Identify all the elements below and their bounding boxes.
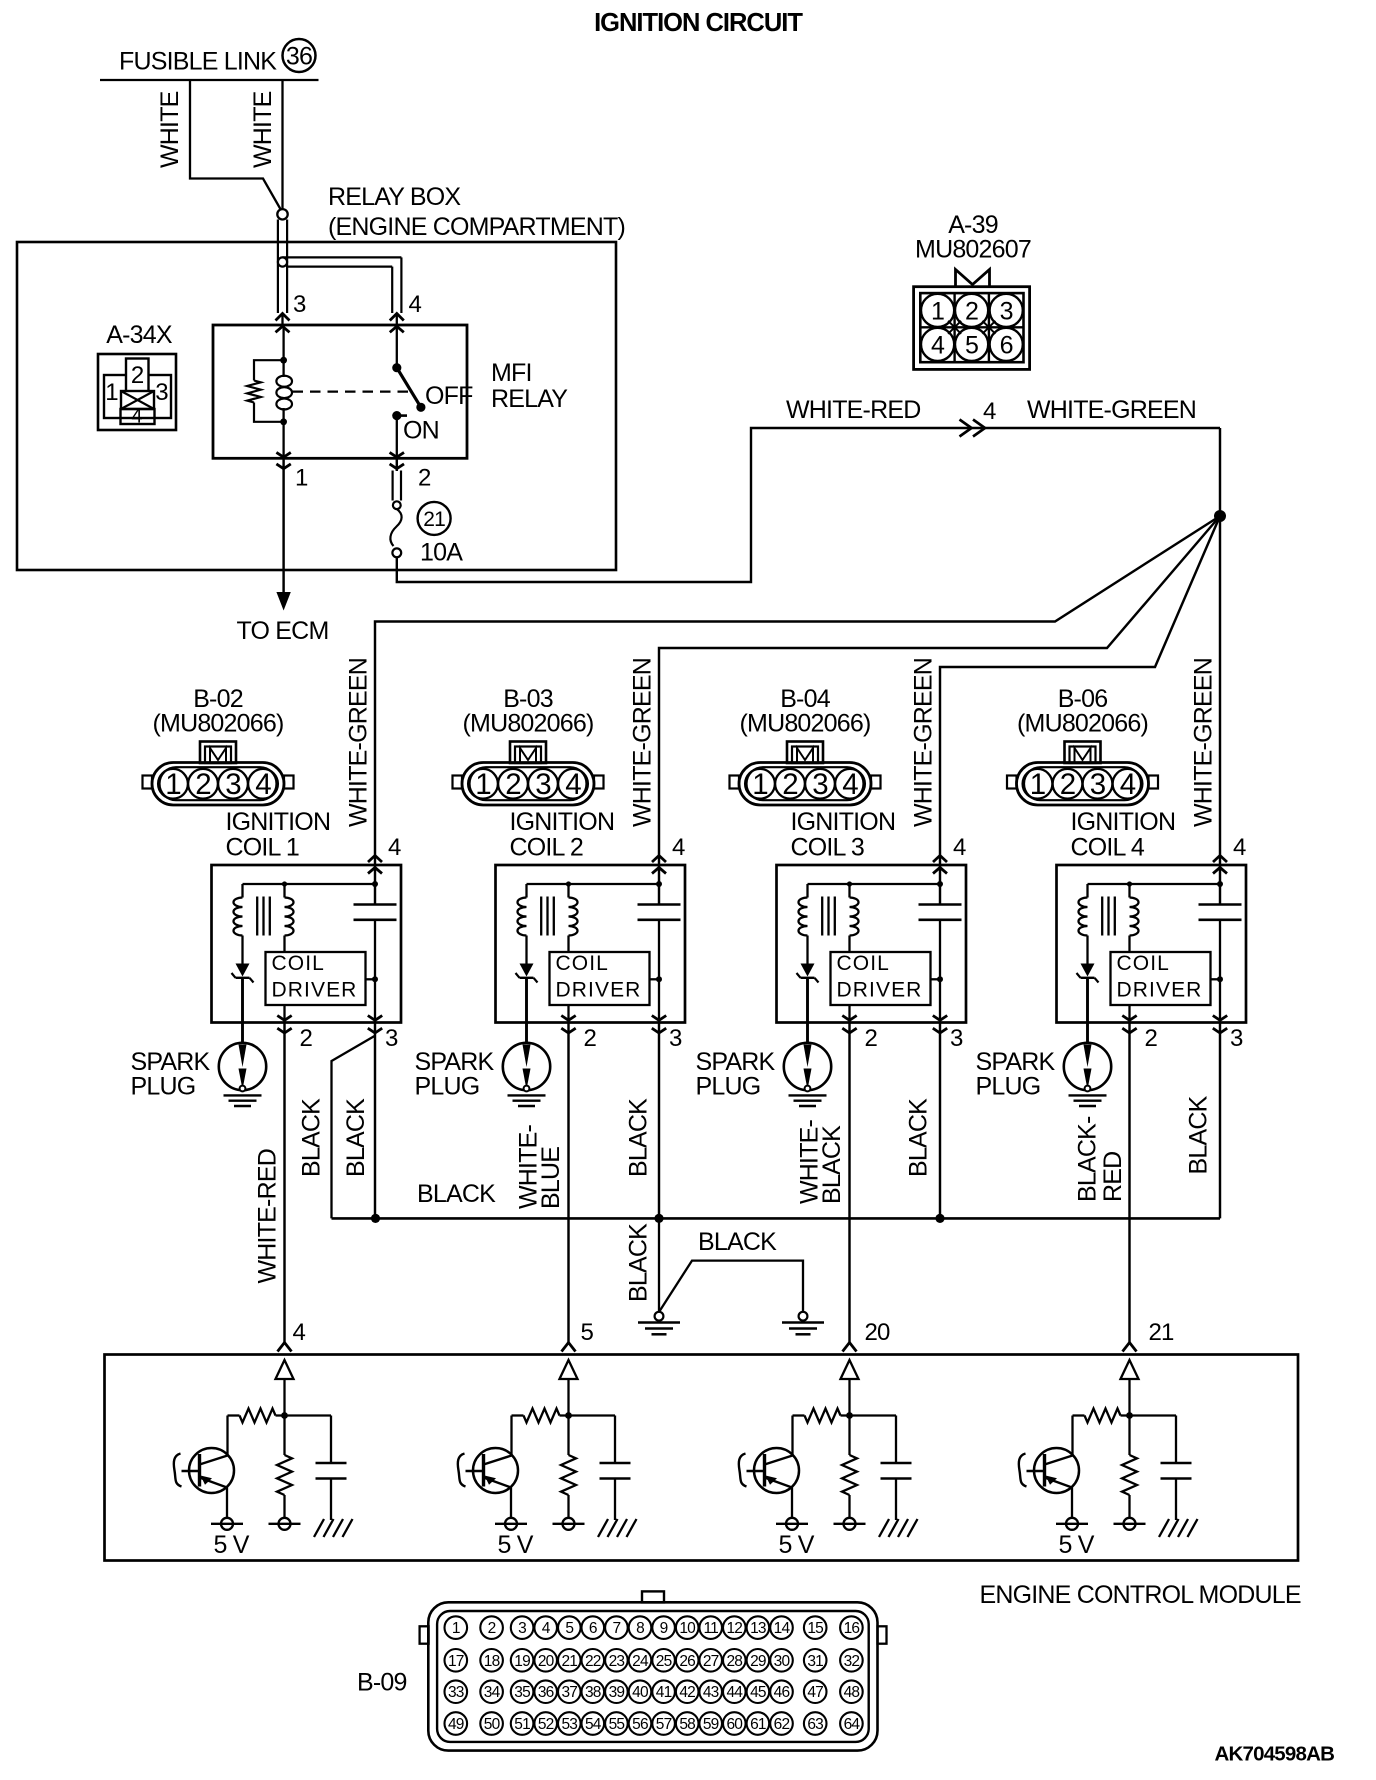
double wire branch to relay pin 4 bbox=[283, 257, 402, 326]
svg-text:37: 37 bbox=[561, 1684, 577, 1701]
svg-text:IGNITION: IGNITION bbox=[226, 808, 331, 836]
svg-text:29: 29 bbox=[750, 1653, 766, 1670]
ground symbol 1 bbox=[638, 1312, 680, 1335]
svg-text:2: 2 bbox=[584, 1025, 597, 1052]
svg-text:60: 60 bbox=[726, 1716, 743, 1733]
svg-text:21: 21 bbox=[423, 508, 445, 531]
coil 1 zener diode bbox=[232, 964, 254, 983]
coil driver box coil 1 bbox=[266, 952, 366, 1005]
dashed actuation line bbox=[293, 391, 410, 393]
svg-text:BLUE: BLUE bbox=[537, 1147, 565, 1209]
inline connector 4 chevrons bbox=[960, 420, 986, 437]
splice connector circle bbox=[277, 209, 287, 219]
svg-text:38: 38 bbox=[585, 1684, 601, 1701]
coil 1 pin 3 diagonal branch (BLACK) bbox=[332, 1036, 375, 1218]
svg-text:63: 63 bbox=[807, 1716, 823, 1733]
fuse 21 10A double lead bbox=[393, 458, 401, 501]
relay coil branch bbox=[276, 326, 292, 458]
svg-text:19: 19 bbox=[514, 1653, 530, 1670]
svg-text:4: 4 bbox=[931, 332, 945, 360]
svg-text:WHITE-RED: WHITE-RED bbox=[786, 396, 920, 424]
svg-text:BLACK: BLACK bbox=[625, 1098, 653, 1177]
ECM driver circuit for pin 21 bbox=[1019, 1360, 1198, 1559]
svg-text:22: 22 bbox=[585, 1653, 601, 1670]
svg-text:COIL: COIL bbox=[837, 952, 890, 975]
coil 1 pin 2 lead bbox=[283, 1005, 285, 1023]
svg-text:44: 44 bbox=[726, 1684, 743, 1701]
svg-text:1: 1 bbox=[295, 465, 308, 492]
ECM driver circuit for pin 4 bbox=[174, 1360, 353, 1559]
svg-text:BLACK: BLACK bbox=[625, 1223, 653, 1302]
ignition coil 2 box bbox=[496, 865, 686, 1023]
svg-text:54: 54 bbox=[585, 1716, 602, 1733]
coil 2 pin 3 exit chevrons bbox=[652, 1016, 666, 1034]
coil 4 HT lead bbox=[1086, 978, 1089, 1044]
svg-text:3: 3 bbox=[950, 1025, 963, 1052]
svg-text:WHITE-GREEN: WHITE-GREEN bbox=[1027, 396, 1196, 424]
coil 3 pin 2 exit chevrons bbox=[842, 1016, 856, 1034]
MFI relay box bbox=[213, 325, 467, 458]
svg-text:61: 61 bbox=[750, 1716, 766, 1733]
svg-text:2: 2 bbox=[865, 1025, 878, 1052]
coil 4 driver to cap link bbox=[1211, 976, 1224, 982]
svg-text:26: 26 bbox=[679, 1653, 695, 1670]
svg-text:4: 4 bbox=[255, 768, 271, 801]
circled 21 bbox=[418, 502, 451, 535]
ECM connector B-09 bbox=[420, 1591, 887, 1750]
svg-text:AK704598AB: AK704598AB bbox=[1215, 1743, 1335, 1766]
spark plug coil 3 bbox=[784, 1043, 831, 1106]
svg-text:5: 5 bbox=[965, 332, 978, 360]
svg-text:62: 62 bbox=[774, 1716, 790, 1733]
svg-text:DRIVER: DRIVER bbox=[1117, 979, 1203, 1002]
WHITE-BLUE wire label bbox=[515, 1124, 566, 1209]
svg-text:21: 21 bbox=[1149, 1319, 1175, 1346]
svg-text:46: 46 bbox=[774, 1684, 790, 1701]
wire fuse to WHITE-RED line bbox=[397, 428, 1220, 582]
relay box outline bbox=[17, 242, 616, 570]
coil 4 transformer bbox=[1079, 884, 1139, 964]
connector B-02 (MU802066) for ignition coil 1 bbox=[143, 685, 294, 805]
svg-text:(MU802066): (MU802066) bbox=[1017, 710, 1148, 738]
svg-text:27: 27 bbox=[703, 1653, 719, 1670]
coil 4 capacitor bbox=[1199, 905, 1242, 1023]
svg-text:RELAY BOX: RELAY BOX bbox=[328, 183, 461, 211]
circled 36 bbox=[283, 39, 316, 72]
svg-text:5: 5 bbox=[581, 1319, 594, 1346]
svg-text:RED: RED bbox=[1099, 1152, 1127, 1202]
svg-text:53: 53 bbox=[561, 1716, 577, 1733]
svg-text:59: 59 bbox=[703, 1716, 719, 1733]
svg-text:35: 35 bbox=[514, 1684, 530, 1701]
svg-text:3: 3 bbox=[535, 768, 551, 801]
coil 1 capacitor bbox=[354, 905, 397, 1023]
svg-text:COIL: COIL bbox=[272, 952, 325, 975]
svg-text:40: 40 bbox=[632, 1684, 649, 1701]
svg-text:9: 9 bbox=[660, 1620, 668, 1637]
svg-text:B-09: B-09 bbox=[357, 1669, 407, 1697]
svg-text:BLACK: BLACK bbox=[698, 1228, 777, 1256]
coil 4 pin 3 exit chevrons bbox=[1213, 1016, 1227, 1034]
svg-text:BLACK: BLACK bbox=[1185, 1095, 1213, 1174]
svg-text:WHITE: WHITE bbox=[249, 91, 277, 168]
svg-text:DRIVER: DRIVER bbox=[556, 979, 642, 1002]
svg-text:1: 1 bbox=[752, 768, 768, 801]
svg-text:12: 12 bbox=[726, 1620, 742, 1637]
svg-text:1: 1 bbox=[931, 298, 944, 326]
ignition coil 3 box bbox=[777, 865, 967, 1023]
coil driver box coil 4 bbox=[1111, 952, 1211, 1005]
svg-text:3: 3 bbox=[669, 1025, 682, 1052]
svg-text:2: 2 bbox=[1145, 1025, 1158, 1052]
coil 2 pin 4 entry chevrons bbox=[652, 856, 666, 874]
svg-text:4: 4 bbox=[1233, 834, 1246, 861]
coil 1 transformer bbox=[234, 884, 294, 964]
svg-text:24: 24 bbox=[632, 1653, 649, 1670]
pin 3 entry chevrons bbox=[276, 314, 290, 333]
svg-text:36: 36 bbox=[538, 1684, 554, 1701]
svg-text:IGNITION: IGNITION bbox=[791, 808, 896, 836]
coil 3 zener diode bbox=[797, 964, 819, 983]
svg-text:5 V: 5 V bbox=[1059, 1531, 1095, 1559]
ECM pin 5 entry chevron bbox=[562, 1343, 576, 1352]
double wire from splice to relay pin 3 bbox=[278, 220, 287, 327]
svg-text:PLUG: PLUG bbox=[976, 1073, 1041, 1101]
svg-text:BLACK: BLACK bbox=[342, 1098, 370, 1177]
svg-text:4: 4 bbox=[672, 834, 685, 861]
svg-text:4: 4 bbox=[542, 1620, 551, 1637]
ECM pin 21 entry chevron bbox=[1123, 1343, 1137, 1352]
fusible link bus line bbox=[100, 79, 319, 81]
svg-text:56: 56 bbox=[632, 1716, 648, 1733]
svg-text:28: 28 bbox=[726, 1653, 742, 1670]
svg-text:WHITE: WHITE bbox=[156, 91, 184, 168]
ECM driver circuit for pin 5 bbox=[458, 1360, 637, 1559]
svg-text:3: 3 bbox=[812, 768, 828, 801]
svg-text:COIL 2: COIL 2 bbox=[510, 834, 583, 862]
svg-text:COIL: COIL bbox=[1117, 952, 1170, 975]
coil 4 pin 2 exit chevrons bbox=[1122, 1016, 1136, 1034]
svg-text:IGNITION: IGNITION bbox=[1071, 808, 1176, 836]
ECM driver circuit for pin 20 bbox=[739, 1360, 918, 1559]
svg-text:41: 41 bbox=[656, 1684, 672, 1701]
coil 3 pin 2 lead bbox=[848, 1005, 850, 1023]
spark plug coil 4 bbox=[1064, 1043, 1111, 1106]
svg-text:31: 31 bbox=[807, 1653, 823, 1670]
coil 4 zener diode bbox=[1077, 964, 1099, 983]
connector B-06 (MU802066) for ignition coil 4 bbox=[1007, 685, 1158, 805]
coil 3 pin 2 wire (WHITE-BLACK) to ECM pin 20 bbox=[848, 1023, 850, 1343]
coil 1 driver to cap link bbox=[366, 976, 379, 982]
coil 3 driver to cap link bbox=[931, 976, 944, 982]
svg-text:58: 58 bbox=[679, 1716, 695, 1733]
svg-text:RELAY: RELAY bbox=[491, 385, 568, 413]
svg-text:49: 49 bbox=[448, 1716, 464, 1733]
coil 2 internal top wire bbox=[527, 856, 663, 905]
svg-text:21: 21 bbox=[561, 1653, 577, 1670]
svg-text:ENGINE CONTROL MODULE: ENGINE CONTROL MODULE bbox=[980, 1581, 1301, 1609]
svg-text:IGNITION: IGNITION bbox=[510, 808, 615, 836]
coil 2 capacitor bbox=[638, 905, 681, 1023]
BLACK-RED wire label bbox=[1074, 1116, 1128, 1202]
svg-text:2: 2 bbox=[131, 362, 144, 389]
coil 3 pin 4 entry chevrons bbox=[933, 856, 947, 874]
svg-text:30: 30 bbox=[774, 1653, 791, 1670]
feeder to coil 1 bbox=[375, 516, 1220, 856]
svg-text:16: 16 bbox=[844, 1620, 860, 1637]
ground symbol 2 bbox=[782, 1312, 824, 1335]
coil 3 pin 3 exit chevrons bbox=[933, 1016, 947, 1034]
svg-text:2: 2 bbox=[782, 768, 798, 801]
svg-text:(ENGINE COMPARTMENT): (ENGINE COMPARTMENT) bbox=[328, 213, 625, 241]
svg-text:3: 3 bbox=[1230, 1025, 1243, 1052]
WHITE-BLACK wire label bbox=[796, 1119, 847, 1204]
svg-text:BLACK-: BLACK- bbox=[1074, 1116, 1102, 1202]
svg-text:4: 4 bbox=[842, 768, 858, 801]
svg-text:DRIVER: DRIVER bbox=[837, 979, 923, 1002]
coil 1 HT lead bbox=[241, 978, 244, 1044]
spark plug coil 2 bbox=[503, 1043, 550, 1106]
ignition coil 1 box bbox=[212, 865, 402, 1023]
svg-text:4: 4 bbox=[1120, 768, 1136, 801]
svg-text:WHITE-GREEN: WHITE-GREEN bbox=[629, 658, 657, 827]
wire WHITE right bbox=[281, 80, 283, 209]
coil 4 pin 4 entry chevrons bbox=[1213, 856, 1227, 874]
svg-text:3: 3 bbox=[518, 1620, 526, 1637]
svg-text:WHITE-GREEN: WHITE-GREEN bbox=[345, 658, 373, 827]
coil 1 pin 3 exit chevrons bbox=[368, 1016, 382, 1034]
svg-text:34: 34 bbox=[484, 1684, 501, 1701]
svg-text:PLUG: PLUG bbox=[131, 1073, 196, 1101]
svg-text:10A: 10A bbox=[420, 539, 463, 567]
svg-text:39: 39 bbox=[609, 1684, 625, 1701]
connector B-04 (MU802066) for ignition coil 3 bbox=[730, 685, 881, 805]
junction circle at T bbox=[278, 257, 287, 266]
wire relay pin1 to ECM bbox=[282, 458, 284, 593]
svg-text:WHITE-GREEN: WHITE-GREEN bbox=[910, 658, 938, 827]
feeder to coil 2 bbox=[659, 516, 1220, 856]
svg-text:15: 15 bbox=[807, 1620, 823, 1637]
svg-text:COIL 3: COIL 3 bbox=[791, 834, 864, 862]
coil 4 internal top wire bbox=[1088, 856, 1224, 905]
svg-text:PLUG: PLUG bbox=[415, 1073, 480, 1101]
svg-text:42: 42 bbox=[679, 1684, 695, 1701]
svg-text:BLACK: BLACK bbox=[417, 1180, 496, 1208]
svg-text:5 V: 5 V bbox=[498, 1531, 534, 1559]
coil 1 internal top wire bbox=[243, 856, 379, 905]
bus junction dot coil 3 bbox=[935, 1214, 944, 1223]
white-green junction node bbox=[1214, 510, 1226, 522]
svg-text:3: 3 bbox=[225, 768, 241, 801]
svg-text:MFI: MFI bbox=[491, 359, 532, 387]
svg-text:6: 6 bbox=[589, 1620, 597, 1637]
svg-text:1: 1 bbox=[1030, 768, 1046, 801]
pin 4 entry chevrons bbox=[390, 314, 404, 333]
white-green trunk down to coil 4 bbox=[1219, 428, 1221, 856]
coil 3 pin 3 wire (BLACK) to bus bbox=[939, 1023, 941, 1219]
svg-text:1: 1 bbox=[452, 1620, 460, 1637]
svg-text:4: 4 bbox=[131, 406, 142, 428]
svg-text:3: 3 bbox=[385, 1025, 398, 1052]
svg-text:36: 36 bbox=[286, 43, 312, 71]
ECM box bbox=[105, 1355, 1299, 1561]
coil 3 internal top wire bbox=[808, 856, 944, 905]
svg-text:5: 5 bbox=[565, 1620, 573, 1637]
svg-text:5 V: 5 V bbox=[779, 1531, 815, 1559]
coil 2 pin 2 wire (WHITE-BLUE) to ECM pin 5 bbox=[567, 1023, 569, 1343]
svg-text:4: 4 bbox=[409, 291, 422, 318]
svg-text:20: 20 bbox=[865, 1319, 891, 1346]
coil 2 transformer bbox=[518, 884, 578, 964]
svg-text:2: 2 bbox=[488, 1620, 496, 1637]
svg-text:25: 25 bbox=[656, 1653, 672, 1670]
svg-text:55: 55 bbox=[609, 1716, 625, 1733]
relay switch bbox=[392, 326, 425, 458]
fuse element bbox=[390, 501, 401, 557]
coil 1 pin 2 wire (WHITE-RED) to ECM pin 4 bbox=[283, 1023, 285, 1343]
coil driver box coil 2 bbox=[550, 952, 650, 1005]
bus junction dot coil 1 bbox=[371, 1214, 380, 1223]
svg-text:3: 3 bbox=[155, 379, 168, 406]
svg-text:4: 4 bbox=[983, 398, 996, 425]
svg-text:BLACK: BLACK bbox=[818, 1125, 846, 1204]
ECM pin 4 entry chevron bbox=[278, 1343, 292, 1352]
svg-text:(MU802066): (MU802066) bbox=[740, 710, 871, 738]
svg-text:64: 64 bbox=[844, 1716, 861, 1733]
svg-text:18: 18 bbox=[484, 1653, 500, 1670]
svg-text:2: 2 bbox=[418, 465, 431, 492]
bus junction dot coil 2 bbox=[654, 1214, 663, 1223]
svg-text:1: 1 bbox=[105, 379, 118, 406]
coil 2 pin 2 exit chevrons bbox=[561, 1016, 575, 1034]
svg-text:7: 7 bbox=[612, 1620, 620, 1637]
spark plug coil 1 bbox=[219, 1043, 266, 1106]
svg-text:51: 51 bbox=[514, 1716, 530, 1733]
svg-text:FUSIBLE LINK: FUSIBLE LINK bbox=[119, 48, 277, 76]
svg-text:ON: ON bbox=[403, 417, 439, 445]
svg-text:2: 2 bbox=[965, 298, 978, 326]
coil 2 pin 3 wire (BLACK) to bus bbox=[658, 1023, 660, 1219]
pin 1 exit chevrons bbox=[276, 452, 290, 468]
coil 3 capacitor bbox=[919, 905, 962, 1023]
svg-text:11: 11 bbox=[703, 1620, 718, 1637]
connector A-39 bbox=[914, 270, 1030, 370]
feeder to coil 3 bbox=[940, 516, 1220, 856]
coil 4 pin 2 wire (BLACK-RED) to ECM pin 21 bbox=[1128, 1023, 1130, 1343]
svg-text:A-34X: A-34X bbox=[106, 321, 173, 349]
relay coil parallel resistor bbox=[247, 360, 283, 422]
coil 2 driver to cap link bbox=[650, 976, 663, 982]
svg-text:45: 45 bbox=[750, 1684, 766, 1701]
svg-text:COIL: COIL bbox=[556, 952, 609, 975]
svg-text:50: 50 bbox=[484, 1716, 501, 1733]
coil 2 zener diode bbox=[516, 964, 538, 983]
coil 4 pin 3 wire (BLACK) to bus bbox=[1219, 1023, 1221, 1219]
svg-text:TO ECM: TO ECM bbox=[237, 617, 329, 645]
coil 3 HT lead bbox=[806, 978, 809, 1044]
svg-text:10: 10 bbox=[679, 1620, 696, 1637]
ignition coil 4 box bbox=[1057, 865, 1247, 1023]
svg-text:2: 2 bbox=[505, 768, 521, 801]
coil 2 pin 2 lead bbox=[567, 1005, 569, 1023]
BLACK ground bus bbox=[332, 1217, 1221, 1220]
svg-text:14: 14 bbox=[774, 1620, 791, 1637]
coil 3 transformer bbox=[799, 884, 859, 964]
svg-text:3: 3 bbox=[1090, 768, 1106, 801]
svg-text:2: 2 bbox=[300, 1025, 313, 1052]
pin 2 exit chevrons bbox=[390, 452, 404, 468]
svg-text:5 V: 5 V bbox=[214, 1531, 250, 1559]
svg-text:52: 52 bbox=[538, 1716, 554, 1733]
svg-text:6: 6 bbox=[1000, 332, 1013, 360]
svg-text:43: 43 bbox=[703, 1684, 719, 1701]
svg-text:13: 13 bbox=[750, 1620, 766, 1637]
svg-text:OFF: OFF bbox=[425, 382, 473, 410]
svg-text:BLACK: BLACK bbox=[905, 1098, 933, 1177]
svg-text:BLACK: BLACK bbox=[298, 1098, 326, 1177]
connector B-03 (MU802066) for ignition coil 2 bbox=[453, 685, 604, 805]
svg-text:(MU802066): (MU802066) bbox=[153, 710, 284, 738]
svg-text:47: 47 bbox=[807, 1684, 823, 1701]
svg-text:COIL 1: COIL 1 bbox=[226, 834, 299, 862]
ECM pin 20 entry chevron bbox=[843, 1343, 857, 1352]
svg-text:8: 8 bbox=[636, 1620, 644, 1637]
svg-text:17: 17 bbox=[448, 1653, 464, 1670]
svg-text:WHITE-GREEN: WHITE-GREEN bbox=[1190, 658, 1218, 827]
svg-text:3: 3 bbox=[1000, 298, 1013, 326]
svg-text:(MU802066): (MU802066) bbox=[463, 710, 594, 738]
svg-text:COIL 4: COIL 4 bbox=[1071, 834, 1145, 862]
svg-text:20: 20 bbox=[538, 1653, 555, 1670]
svg-text:DRIVER: DRIVER bbox=[272, 979, 358, 1002]
svg-text:2: 2 bbox=[195, 768, 211, 801]
svg-text:4: 4 bbox=[293, 1319, 306, 1346]
wire WHITE left bbox=[190, 80, 281, 210]
svg-text:57: 57 bbox=[656, 1716, 672, 1733]
svg-text:PLUG: PLUG bbox=[696, 1073, 761, 1101]
svg-text:33: 33 bbox=[448, 1684, 464, 1701]
svg-text:4: 4 bbox=[565, 768, 581, 801]
arrowhead TO ECM bbox=[276, 592, 290, 611]
svg-text:IGNITION CIRCUIT: IGNITION CIRCUIT bbox=[594, 9, 803, 37]
svg-text:23: 23 bbox=[609, 1653, 625, 1670]
svg-text:2: 2 bbox=[1060, 768, 1076, 801]
svg-text:4: 4 bbox=[953, 834, 966, 861]
coil 1 pin 2 exit chevrons bbox=[277, 1016, 291, 1034]
coil 1 pin 3 wire (BLACK) to bus bbox=[374, 1023, 376, 1219]
svg-text:1: 1 bbox=[165, 768, 181, 801]
svg-text:WHITE-RED: WHITE-RED bbox=[254, 1149, 282, 1283]
svg-text:32: 32 bbox=[844, 1653, 860, 1670]
coil 2 HT lead bbox=[525, 978, 528, 1044]
svg-text:4: 4 bbox=[388, 834, 401, 861]
ground branch wire bbox=[659, 1261, 803, 1312]
svg-text:1: 1 bbox=[475, 768, 491, 801]
svg-text:MU802607: MU802607 bbox=[915, 236, 1031, 264]
connector A-34X bbox=[98, 354, 176, 430]
ground drop wire from bus bbox=[658, 1218, 660, 1312]
svg-text:48: 48 bbox=[844, 1684, 860, 1701]
svg-text:3: 3 bbox=[293, 291, 306, 318]
coil 1 pin 4 entry chevrons bbox=[368, 856, 382, 874]
coil 4 pin 2 lead bbox=[1128, 1005, 1130, 1023]
coil driver box coil 3 bbox=[831, 952, 931, 1005]
